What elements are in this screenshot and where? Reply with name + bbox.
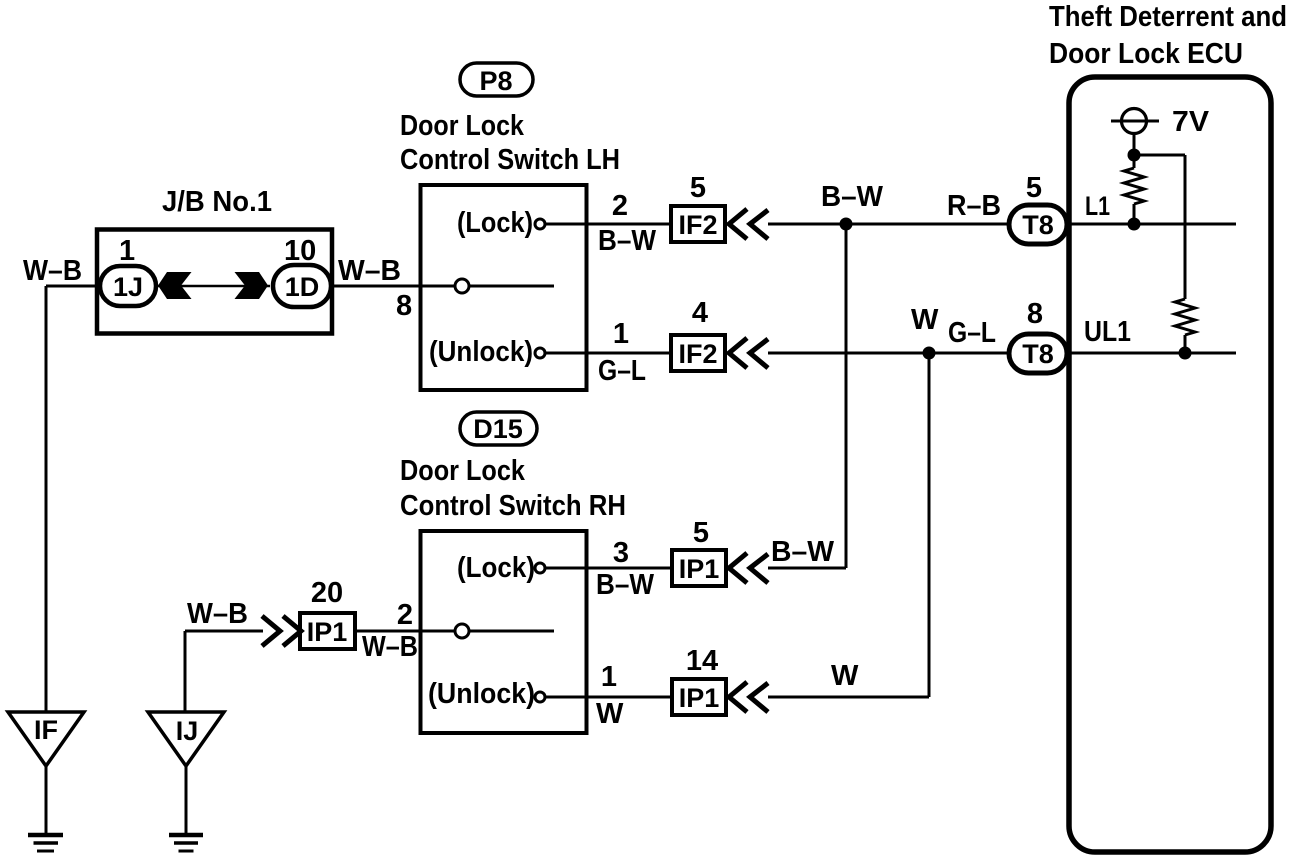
svg-text:IF: IF xyxy=(34,715,58,745)
svg-text:(Lock): (Lock) xyxy=(457,207,533,239)
svg-text:3: 3 xyxy=(613,537,629,569)
svg-text:1D: 1D xyxy=(285,272,320,302)
svg-text:Theft Deterrent and: Theft Deterrent and xyxy=(1049,1,1287,33)
svg-text:(Unlock): (Unlock) xyxy=(428,678,535,710)
svg-text:5: 5 xyxy=(1026,172,1042,204)
svg-text:T8: T8 xyxy=(1022,210,1054,240)
svg-text:1: 1 xyxy=(601,661,617,693)
svg-text:B–W: B–W xyxy=(771,536,835,568)
svg-text:10: 10 xyxy=(284,235,316,267)
svg-text:14: 14 xyxy=(686,645,718,677)
svg-text:Door Lock: Door Lock xyxy=(400,455,526,487)
svg-text:(Lock): (Lock) xyxy=(457,552,535,584)
svg-text:UL1: UL1 xyxy=(1084,316,1131,348)
svg-text:8: 8 xyxy=(1027,298,1043,330)
svg-text:1: 1 xyxy=(613,318,629,350)
svg-text:W: W xyxy=(831,660,859,692)
svg-text:IF2: IF2 xyxy=(678,210,717,240)
svg-text:1: 1 xyxy=(119,235,135,267)
svg-text:R–B: R–B xyxy=(947,190,1001,222)
svg-text:B–W: B–W xyxy=(596,569,655,601)
svg-text:Door Lock: Door Lock xyxy=(400,110,525,142)
svg-text:P8: P8 xyxy=(479,66,512,96)
svg-text:T8: T8 xyxy=(1022,339,1054,369)
svg-text:B–W: B–W xyxy=(598,225,657,257)
svg-text:W–B: W–B xyxy=(23,255,82,287)
svg-text:2: 2 xyxy=(397,599,413,631)
svg-text:IP1: IP1 xyxy=(307,617,348,647)
svg-text:IJ: IJ xyxy=(176,716,199,746)
svg-text:B–W: B–W xyxy=(821,181,884,213)
svg-text:Door Lock ECU: Door Lock ECU xyxy=(1049,38,1243,70)
svg-text:D15: D15 xyxy=(473,414,523,444)
svg-text:IP1: IP1 xyxy=(679,683,720,713)
svg-text:W: W xyxy=(911,304,939,336)
svg-text:W–B: W–B xyxy=(187,598,248,630)
svg-text:5: 5 xyxy=(690,172,706,204)
svg-text:J/B No.1: J/B No.1 xyxy=(162,186,272,218)
svg-text:IF2: IF2 xyxy=(678,339,717,369)
svg-text:7V: 7V xyxy=(1172,106,1210,138)
svg-text:IP1: IP1 xyxy=(679,554,720,584)
svg-text:W–B: W–B xyxy=(362,631,418,663)
svg-text:W–B: W–B xyxy=(338,255,401,287)
svg-text:Control Switch RH: Control Switch RH xyxy=(400,490,626,522)
svg-text:4: 4 xyxy=(692,297,708,329)
svg-text:5: 5 xyxy=(693,517,709,549)
svg-text:G–L: G–L xyxy=(948,317,996,349)
svg-text:G–L: G–L xyxy=(598,355,646,387)
svg-text:(Unlock): (Unlock) xyxy=(429,336,533,368)
svg-text:L1: L1 xyxy=(1085,191,1110,221)
svg-text:2: 2 xyxy=(612,190,628,222)
svg-text:20: 20 xyxy=(311,577,343,609)
svg-text:W: W xyxy=(596,698,624,730)
svg-text:Control Switch LH: Control Switch LH xyxy=(400,144,620,176)
svg-text:1J: 1J xyxy=(113,272,143,302)
svg-text:8: 8 xyxy=(396,290,412,322)
